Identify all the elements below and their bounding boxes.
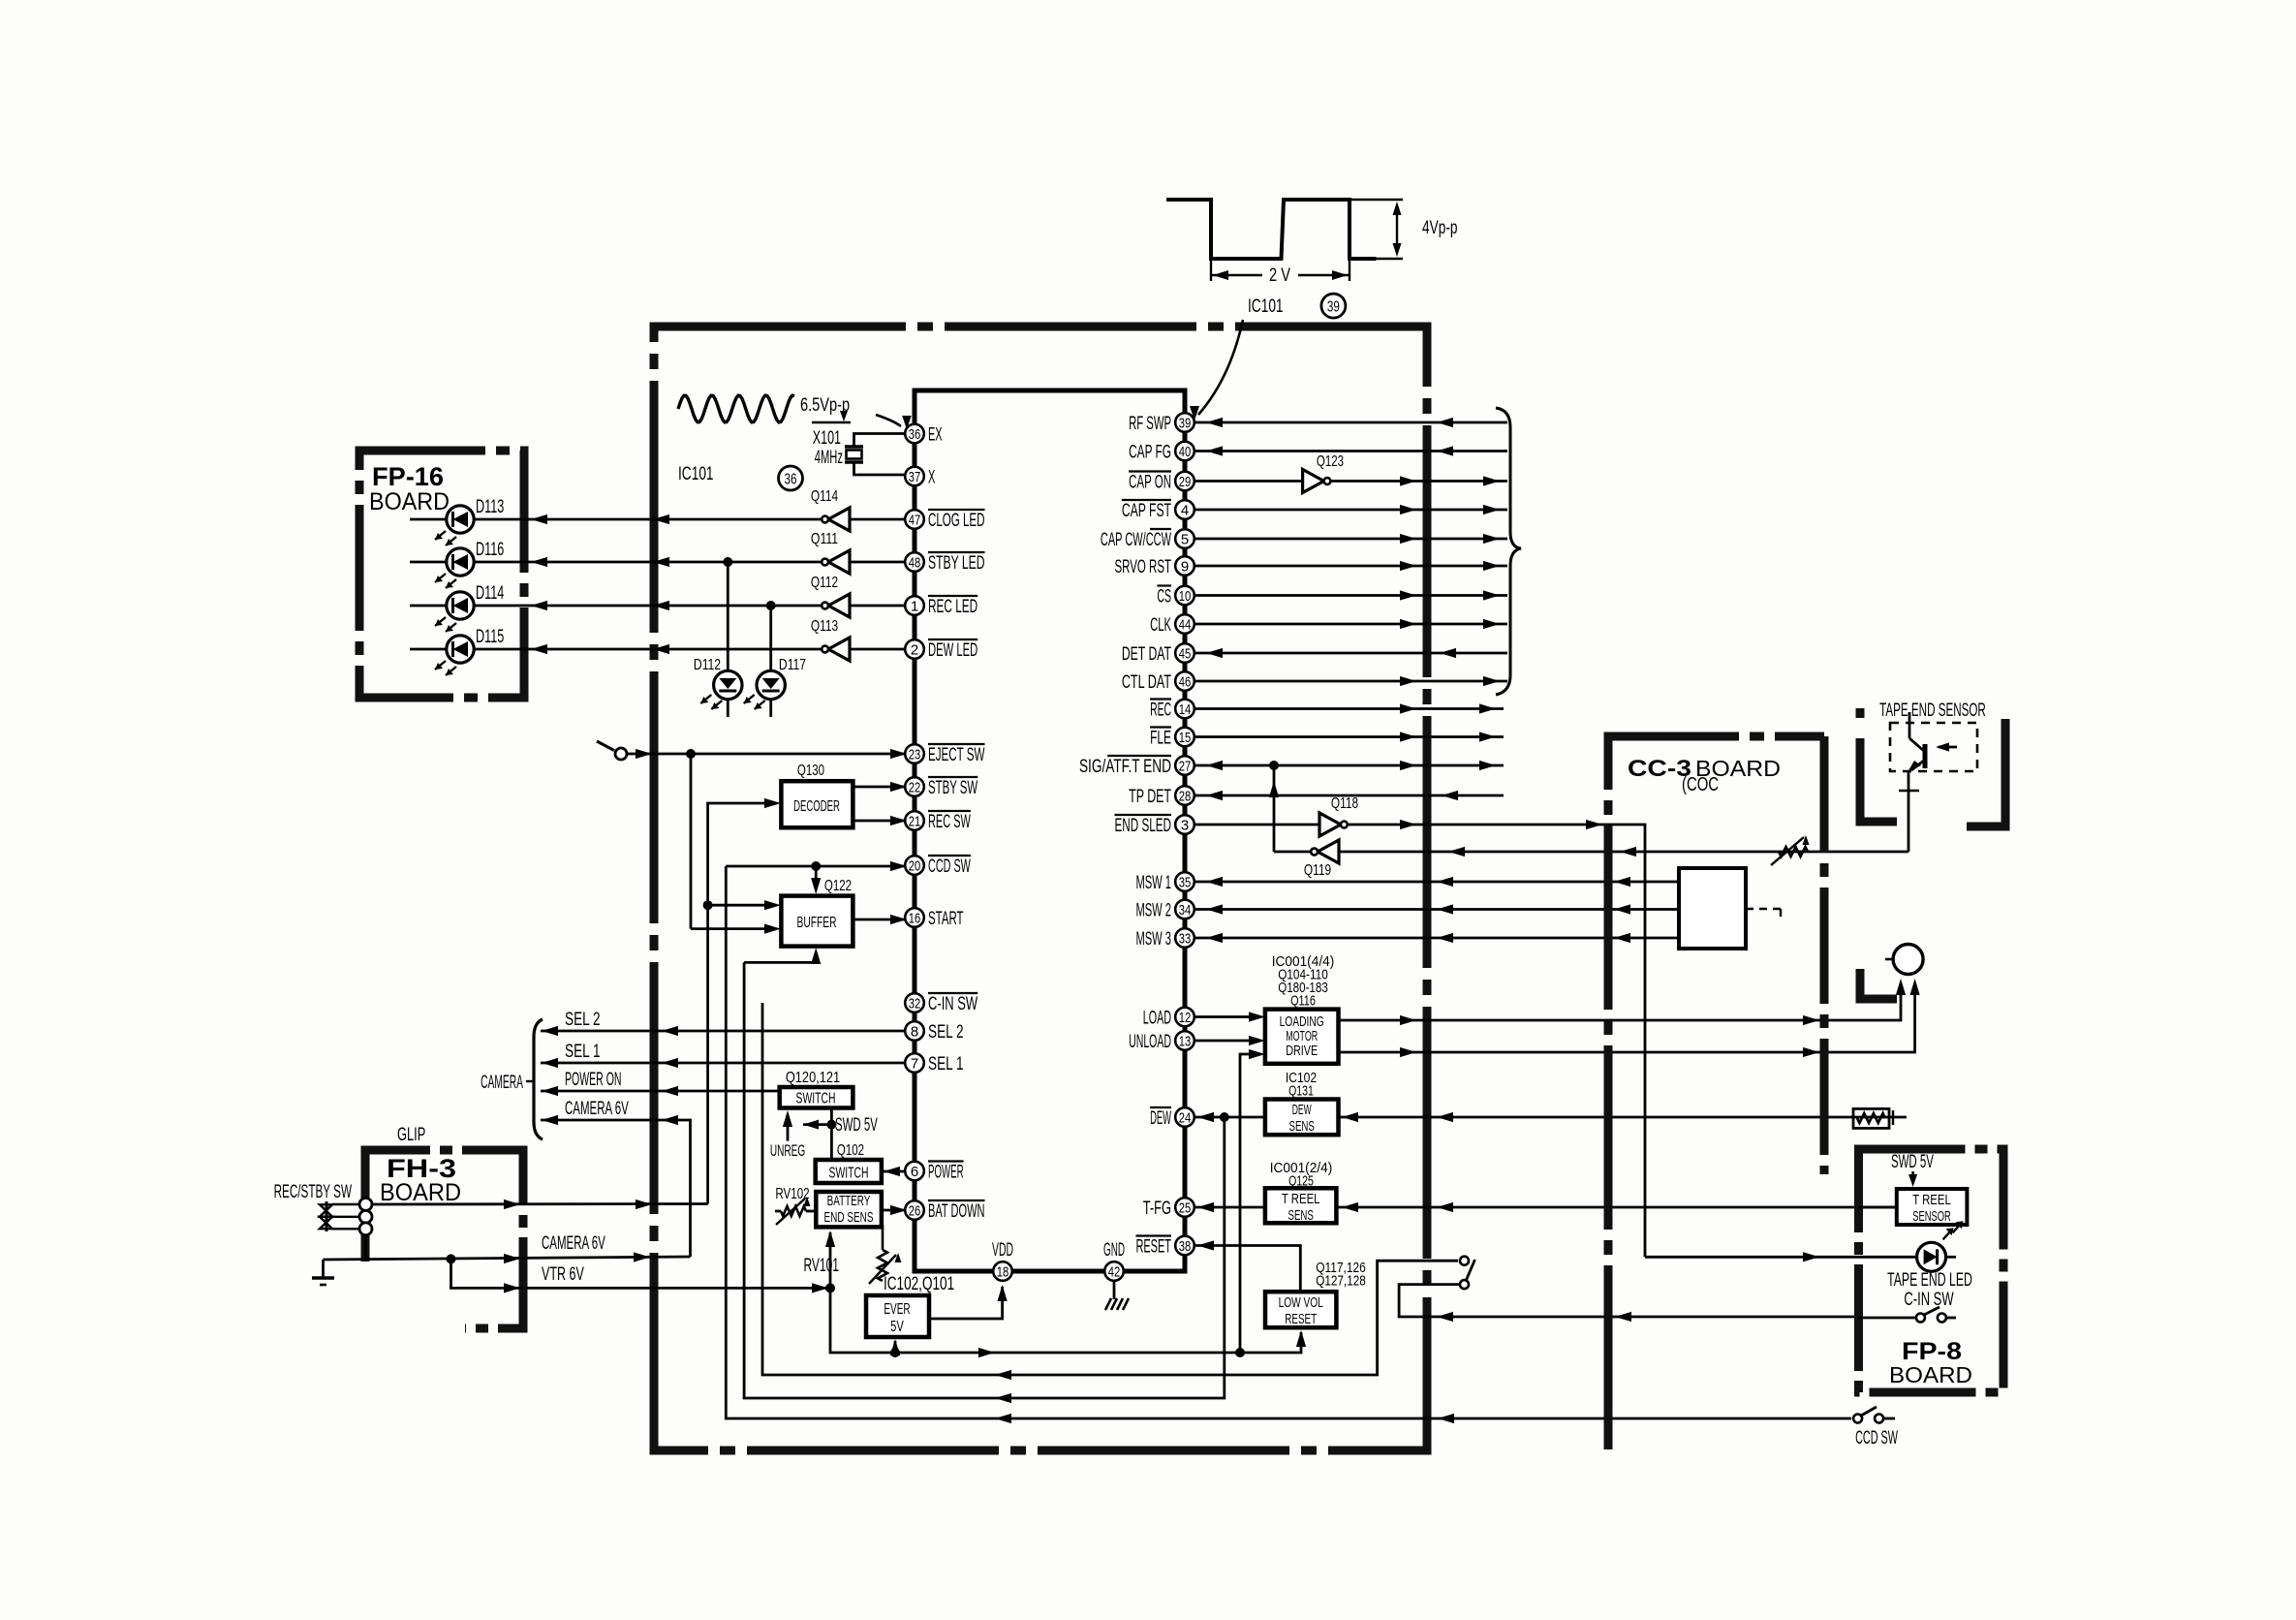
inverter Q111: [828, 550, 850, 574]
svg-text:4Vp-p: 4Vp-p: [1422, 217, 1458, 238]
svg-text:DET DAT: DET DAT: [1122, 643, 1171, 665]
svg-text:POWER ON: POWER ON: [565, 1069, 622, 1090]
svg-text:IC101: IC101: [1248, 296, 1284, 317]
wire to BUFFER input 1: [708, 904, 765, 907]
svg-text:UNLOAD: UNLOAD: [1129, 1031, 1171, 1052]
svg-text:CS: CS: [1157, 586, 1171, 607]
svg-text:21: 21: [909, 813, 921, 829]
wire EVER5V to VDD pin 18: [929, 1287, 1003, 1319]
svg-text:37: 37: [909, 469, 921, 485]
svg-text:FLE: FLE: [1150, 728, 1171, 749]
svg-text:DEW: DEW: [1150, 1107, 1171, 1129]
svg-text:X: X: [928, 467, 935, 488]
wire CCD SW line: [726, 865, 905, 868]
wire crystal to pin37: [854, 462, 906, 475]
svg-text:CAP ON: CAP ON: [1129, 472, 1171, 493]
internal switch (cassette-in): [1460, 1257, 1469, 1265]
wire DECODER to pin 21: [853, 820, 906, 823]
svg-text:BUFFER: BUFFER: [797, 915, 837, 931]
svg-text:23: 23: [909, 746, 921, 763]
pin 4 CAP FST: [1175, 500, 1195, 519]
svg-text:TAPE END LED: TAPE END LED: [1887, 1269, 1972, 1291]
svg-text:REC LED: REC LED: [928, 596, 977, 617]
deck boundary segment left of sensor: [1860, 708, 1897, 822]
wire END SLED line to Q118: [1195, 824, 1319, 826]
IC101 outline: [915, 390, 1185, 1271]
inverter Q114: [828, 508, 850, 531]
2V dimension: [1210, 259, 1212, 281]
circled 39 label: [1321, 294, 1346, 318]
svg-text:Q114: Q114: [811, 488, 838, 505]
svg-text:REC/STBY SW: REC/STBY SW: [274, 1181, 353, 1202]
wire switch lower contact to C-IN SW line from FP-8: [1399, 1285, 1858, 1317]
wire dew sensor line from FP-8 resistor: [1339, 1116, 1908, 1119]
wire battery sens bottom feed: [829, 1232, 832, 1288]
tape end LED: [1917, 1242, 1946, 1271]
pin 23 EJECT SW: [905, 744, 924, 763]
junction to loading motor drive enable: [1235, 1348, 1245, 1357]
svg-text:LOAD: LOAD: [1143, 1008, 1171, 1029]
wire D114 line: [410, 605, 822, 607]
svg-text:FP-8: FP-8: [1902, 1338, 1962, 1365]
FP-8 board boundary (dash-dot): [1859, 1149, 2004, 1392]
dashed stub on mode switch: [1746, 908, 1781, 910]
4Vp-p dimension: [1350, 199, 1403, 201]
svg-text:TAPE END SENSOR: TAPE END SENSOR: [1879, 700, 1986, 721]
svg-text:40: 40: [1179, 444, 1192, 460]
pin 2 DEW LED: [905, 639, 924, 659]
wire CTL DAT line: [1195, 680, 1507, 683]
wire control line y=644: [1195, 623, 1507, 626]
wire BATTERY END SENS to pin 26: [882, 1209, 905, 1212]
pin 46 CTL DAT: [1175, 671, 1195, 691]
wire D117 branch from REC line: [766, 601, 776, 610]
svg-text:Q123: Q123: [1317, 453, 1344, 470]
svg-text:45: 45: [1179, 645, 1192, 662]
svg-text:GND: GND: [1103, 1239, 1125, 1261]
svg-text:36: 36: [909, 426, 921, 443]
svg-text:16: 16: [909, 910, 921, 926]
wire Q112 to pin 1: [850, 605, 905, 607]
svg-text:D113: D113: [476, 496, 504, 517]
LED D112: [714, 670, 742, 699]
wire Q114 to pin 47: [850, 518, 905, 521]
wire riser to LOADING MOTOR DRIVE input: [1240, 1054, 1254, 1353]
wire EJECT switch to pin 23: [627, 753, 905, 756]
svg-text:22: 22: [909, 779, 921, 795]
svg-text:C-IN SW: C-IN SW: [928, 993, 978, 1014]
wire SEL 2 line: [541, 1030, 905, 1033]
CCD SW switch: [1853, 1415, 1862, 1423]
wire DECODER to pin 22: [853, 786, 906, 789]
svg-text:CCD SW: CCD SW: [928, 856, 971, 877]
dew sensor block: [1265, 1100, 1339, 1136]
pin 20 CCD SW: [905, 856, 924, 875]
variable resistor RV102: [781, 1206, 806, 1216]
ground at FH-3: [322, 1260, 325, 1278]
svg-text:REC: REC: [1150, 700, 1171, 721]
dew sensor resistor: [1853, 1108, 1889, 1128]
svg-text:MSW 3: MSW 3: [1135, 928, 1171, 950]
svg-text:6: 6: [911, 1164, 918, 1180]
svg-text:GLIP: GLIP: [397, 1124, 425, 1145]
wire control line y=556: [1195, 538, 1507, 541]
svg-text:35: 35: [1179, 874, 1192, 890]
circled 36 label: [779, 466, 803, 490]
wire Q119 output to junction riser: [1274, 851, 1311, 854]
wire through tape end LED: [1645, 1256, 1916, 1259]
svg-text:BOARD: BOARD: [380, 1179, 461, 1206]
svg-text:SEL 1: SEL 1: [565, 1041, 601, 1062]
svg-text:Q102: Q102: [837, 1142, 864, 1159]
svg-text:4MHz: 4MHz: [815, 447, 843, 468]
svg-text:39: 39: [1179, 415, 1192, 431]
wire TP DET line: [1195, 794, 1504, 797]
ever 5V regulator block: [866, 1295, 929, 1337]
svg-text:T-FG: T-FG: [1143, 1198, 1171, 1219]
svg-text:Q112: Q112: [811, 575, 838, 591]
svg-text:SEL 1: SEL 1: [928, 1053, 964, 1075]
svg-text:Q127,128: Q127,128: [1316, 1273, 1366, 1290]
svg-text:46: 46: [1179, 673, 1192, 690]
svg-text:SEL 2: SEL 2: [928, 1021, 964, 1043]
wire CAMERA 6V return line: [541, 1120, 691, 1257]
svg-text:29: 29: [1179, 474, 1192, 490]
svg-text:RESET: RESET: [1135, 1236, 1171, 1258]
svg-text:44: 44: [1179, 616, 1192, 633]
inverter Q113: [828, 638, 850, 661]
pin 35 MSW 1: [1175, 872, 1195, 891]
FP-16 board boundary (dash-dot): [359, 451, 524, 698]
wire DEW branch bus (bottom): [744, 962, 1225, 1398]
inverter Q119: [1318, 840, 1339, 863]
wire BUFFER to pin 16: [853, 919, 906, 921]
wire t-reel line from FP-8 sensor: [1336, 1206, 1896, 1209]
leader arrow from IC101 label to pin 39: [1198, 320, 1243, 415]
pin 9 SRVO RST: [1175, 556, 1195, 576]
svg-text:Q130: Q130: [797, 763, 824, 779]
ground symbol at pin 42: [1113, 1281, 1116, 1299]
buffer Q122: [781, 896, 853, 947]
svg-text:CTL DAT: CTL DAT: [1122, 671, 1171, 693]
wire MSW2 line: [1195, 908, 1679, 911]
svg-text:SRVO RST: SRVO RST: [1115, 556, 1172, 577]
wire lower connector pins common: [364, 1235, 367, 1260]
mode switch block (CC-3): [1679, 868, 1746, 949]
wire control line y=584: [1195, 565, 1507, 568]
svg-text:Q120,121: Q120,121: [786, 1070, 840, 1086]
svg-text:X101: X101: [813, 427, 841, 449]
svg-text:Q113: Q113: [811, 618, 838, 635]
pin 26 BAT DOWN: [905, 1200, 924, 1220]
svg-text:13: 13: [1179, 1033, 1192, 1049]
svg-text:32: 32: [909, 995, 921, 1012]
wire control line y=526: [1195, 509, 1507, 512]
wire RF SWP line: [1195, 421, 1507, 424]
svg-text:END SENS: END SENS: [823, 1210, 873, 1226]
pin 39 RF SWP: [1175, 413, 1195, 432]
pin 1 REC LED: [905, 596, 924, 615]
wire pin 38 RESET from LOW VOL RESET: [1195, 1246, 1300, 1293]
svg-text:48: 48: [909, 554, 921, 571]
wire SEL 1 line: [541, 1062, 905, 1065]
wire D116 line: [410, 561, 822, 564]
svg-text:END SLED: END SLED: [1115, 815, 1172, 836]
svg-text:T REEL: T REEL: [1912, 1192, 1951, 1208]
svg-text:SWD 5V: SWD 5V: [1891, 1151, 1934, 1172]
svg-text:47: 47: [909, 512, 921, 528]
svg-text:20: 20: [909, 857, 921, 874]
loading motor drive block: [1265, 1010, 1339, 1064]
variable resistor RV101: [882, 1225, 884, 1250]
junction EJECT branch: [686, 749, 696, 759]
pin 12 LOAD: [1175, 1008, 1195, 1027]
svg-text:VTR 6V: VTR 6V: [542, 1263, 584, 1285]
svg-text:DECODER: DECODER: [793, 798, 840, 815]
svg-text:2: 2: [911, 641, 918, 658]
svg-text:RV101: RV101: [803, 1255, 839, 1276]
t-reel sensor block: [1265, 1188, 1337, 1223]
svg-text:D117: D117: [779, 657, 806, 673]
wire t-reel sensor to line: [1859, 1206, 1897, 1209]
pin 28 TP DET: [1175, 786, 1195, 805]
pin 27 SIG/ATF.T END: [1175, 756, 1195, 775]
inverter Q123: [1303, 470, 1324, 493]
svg-text:STBY LED: STBY LED: [928, 552, 985, 574]
pin 6 POWER: [905, 1162, 924, 1181]
svg-text:18: 18: [997, 1263, 1009, 1280]
svg-text:BAT DOWN: BAT DOWN: [928, 1200, 985, 1222]
wire CCD SW bus (bottom): [726, 866, 1851, 1418]
sine waveform at pin 36 (EX): [678, 395, 794, 422]
wire POWER ON line: [541, 1090, 780, 1093]
svg-text:CLOG LED: CLOG LED: [928, 510, 985, 531]
wire REC line: [1195, 707, 1504, 710]
svg-text:CAMERA: CAMERA: [481, 1072, 523, 1093]
pin 8 SEL 2: [905, 1021, 924, 1041]
connector pins REC/STBY: [326, 1201, 328, 1231]
wire pin 24 DEW from block: [1195, 1116, 1265, 1119]
svg-text:28: 28: [1179, 788, 1192, 804]
svg-text:SWITCH: SWITCH: [829, 1166, 869, 1182]
svg-text:STBY SW: STBY SW: [928, 777, 978, 798]
pin 34 MSW 2: [1175, 900, 1195, 919]
junction CCD to buffer: [811, 861, 821, 871]
wire phototransistor emitter down to sensor line: [1908, 772, 1910, 852]
connector circles on FH-3 edge: [359, 1199, 372, 1211]
svg-text:Q131: Q131: [1288, 1083, 1314, 1100]
svg-text:42: 42: [1108, 1263, 1121, 1280]
pin 22 STBY SW: [905, 777, 924, 796]
svg-text:UNREG: UNREG: [770, 1142, 805, 1160]
wire REC/STBY SW to decoder riser: [372, 1202, 708, 1205]
pin 32 C-IN SW: [905, 993, 924, 1012]
switch block Q102: [816, 1160, 882, 1183]
phototransistor (tape end sensor): [1923, 744, 1928, 768]
connector tick on dew sensor line: [1892, 1110, 1894, 1125]
pin 5 CAP CW/CCW: [1175, 529, 1195, 548]
svg-text:CAP CW/CCW: CAP CW/CCW: [1101, 529, 1171, 550]
svg-text:Q119: Q119: [1304, 862, 1331, 879]
pin 16 START: [905, 908, 924, 927]
battery end sensor block RV102: [816, 1192, 882, 1227]
deck boundary corner at loading motor: [1860, 969, 1897, 999]
svg-text:24: 24: [1179, 1109, 1192, 1126]
wire motor drive output 1: [1339, 988, 1902, 1020]
svg-text:25: 25: [1179, 1199, 1192, 1216]
wire CAP FG line: [1195, 450, 1507, 452]
wire EJECT branch down to BUFFER input: [690, 754, 693, 929]
svg-text:9: 9: [1181, 558, 1189, 575]
FH-3 board boundary (dash-dot): [365, 1150, 523, 1328]
svg-text:D112: D112: [694, 657, 721, 673]
square waveform at pin 39: [1166, 200, 1377, 259]
wire motor drive output 2: [1339, 988, 1915, 1052]
svg-text:SEL 2: SEL 2: [565, 1009, 601, 1030]
svg-text:7: 7: [911, 1055, 918, 1072]
wire Q111 to pin 48: [850, 561, 905, 564]
pin 21 REC SW: [905, 811, 924, 830]
pin 24 DEW: [1175, 1107, 1195, 1127]
svg-text:27: 27: [1179, 758, 1192, 774]
wire EVER5V bottom feed from unreg bus: [894, 1341, 897, 1353]
svg-text:BATTERY: BATTERY: [827, 1194, 871, 1209]
deck boundary segment right of sensor: [1967, 719, 2005, 826]
t-reel sensor block (FP-8): [1897, 1189, 1968, 1225]
wire DET DAT line: [1195, 652, 1507, 655]
pin 38 RESET: [1175, 1236, 1195, 1256]
wire pin 12 LOAD to block: [1195, 1015, 1254, 1018]
junction SIG line to Q119: [1269, 761, 1279, 770]
svg-text:Q111: Q111: [811, 531, 838, 547]
svg-text:39: 39: [1327, 299, 1340, 316]
wire control line y=614.5: [1195, 594, 1507, 597]
wire CCD branch into BUFFER top: [815, 866, 818, 880]
CC-3 board boundary (dash-dot): [1608, 736, 1824, 1449]
svg-text:3: 3: [1181, 817, 1189, 833]
svg-text:36: 36: [785, 472, 797, 488]
svg-text:34: 34: [1179, 902, 1192, 919]
wire D115 line: [410, 648, 822, 651]
main system-control board boundary (dash-dot): [654, 327, 1427, 1450]
wire UNREG arrow into switch block: [787, 1114, 790, 1141]
wire unreg supply bus (bottom): [830, 1288, 1301, 1353]
svg-text:15: 15: [1179, 730, 1192, 746]
wire SWD5V arrow into T REEL SENSOR: [1911, 1171, 1914, 1180]
pin 37 X: [905, 467, 924, 486]
wire C-IN SW bus (bottom): [762, 1003, 1458, 1375]
svg-text:CAP FG: CAP FG: [1129, 442, 1171, 463]
svg-text:Q118: Q118: [1331, 795, 1358, 812]
svg-text:START: START: [928, 908, 964, 929]
EJECT switch (momentary): [597, 741, 614, 751]
wire pin 6 POWER to switch Q102: [882, 1170, 905, 1173]
svg-text:EX: EX: [928, 424, 943, 446]
pin 29 CAP ON: [1175, 472, 1195, 491]
wire riser Q119 output to SIG junction: [1273, 765, 1276, 852]
svg-text:RESET: RESET: [1285, 1311, 1317, 1327]
cassette-in switch (FP-8): [1916, 1314, 1925, 1323]
wire Q119 input from tape end sensor: [1339, 851, 1908, 854]
wire CAP ON line with inverter Q123: [1195, 480, 1303, 483]
svg-text:TP DET: TP DET: [1129, 786, 1171, 807]
wire FLE line: [1195, 735, 1504, 738]
svg-text:Q122: Q122: [824, 878, 852, 894]
svg-text:REC SW: REC SW: [928, 811, 971, 832]
svg-text:CCD SW: CCD SW: [1855, 1427, 1898, 1449]
svg-text:2 V: 2 V: [1269, 265, 1290, 286]
junction DEW branch: [1220, 1112, 1229, 1122]
wire SWD 5V from switch block: [830, 1107, 833, 1160]
inverter Q112: [828, 594, 850, 617]
svg-text:D115: D115: [476, 626, 504, 647]
loading motor: [1893, 945, 1923, 975]
wire MSW3 line: [1195, 937, 1679, 940]
wire REC/STBY signal up to DECODER: [708, 803, 765, 1204]
svg-text:T REEL: T REEL: [1282, 1191, 1320, 1207]
svg-text:RF SWP: RF SWP: [1129, 413, 1171, 434]
pin 13 UNLOAD: [1175, 1031, 1195, 1050]
svg-text:MSW 1: MSW 1: [1135, 872, 1171, 893]
svg-text:33: 33: [1179, 930, 1192, 947]
pin 10 CS: [1175, 586, 1195, 606]
inverter Q118: [1319, 813, 1341, 836]
svg-text:26: 26: [909, 1202, 921, 1219]
camera connector bracket: [534, 1019, 543, 1139]
LED D117: [757, 670, 785, 699]
svg-text:SENSOR: SENSOR: [1912, 1208, 1951, 1225]
pin 3 END SLED: [1175, 815, 1195, 834]
svg-text:FP-16: FP-16: [372, 462, 444, 491]
svg-text:D116: D116: [476, 539, 504, 560]
pin 18 VDD: [993, 1262, 1012, 1281]
svg-text:MSW 2: MSW 2: [1135, 900, 1171, 921]
svg-text:SWD 5V: SWD 5V: [835, 1114, 878, 1136]
svg-text:4: 4: [1181, 502, 1189, 518]
svg-text:LOW VOL: LOW VOL: [1279, 1294, 1323, 1311]
svg-text:IC101: IC101: [678, 463, 714, 484]
svg-text:CAMERA 6V: CAMERA 6V: [565, 1098, 629, 1119]
wire MSW1 line: [1195, 881, 1679, 884]
tape end sensor dashed outline: [1890, 723, 1977, 771]
wire VTR 6V: [451, 1259, 831, 1288]
wire D113 line: [410, 518, 822, 521]
svg-text:1: 1: [911, 598, 918, 614]
LED D114: [447, 592, 474, 619]
svg-text:DEW LED: DEW LED: [928, 639, 977, 661]
wire Q113 to pin 2: [850, 648, 905, 651]
switch block Q120,121: [780, 1087, 853, 1108]
LED D116: [447, 548, 474, 576]
svg-text:14: 14: [1179, 701, 1192, 718]
svg-text:CAMERA 6V: CAMERA 6V: [542, 1232, 605, 1254]
variable resistor on sensor line: [1779, 847, 1808, 857]
svg-text:EJECT SW: EJECT SW: [928, 744, 985, 765]
svg-text:SENS: SENS: [1289, 1118, 1315, 1135]
svg-text:5: 5: [1181, 531, 1189, 547]
pin 15 FLE: [1175, 728, 1195, 747]
svg-text:10: 10: [1179, 588, 1192, 605]
pin 40 CAP FG: [1175, 442, 1195, 461]
pin 25 T-FG: [1175, 1198, 1195, 1217]
svg-text:5V: 5V: [890, 1319, 904, 1335]
svg-text:12: 12: [1179, 1010, 1192, 1026]
svg-text:DEW: DEW: [1292, 1102, 1312, 1118]
svg-text:BOARD: BOARD: [369, 488, 450, 515]
svg-text:Q116: Q116: [1290, 993, 1316, 1010]
LED D113: [447, 506, 474, 533]
pin 42 GND: [1104, 1262, 1124, 1281]
